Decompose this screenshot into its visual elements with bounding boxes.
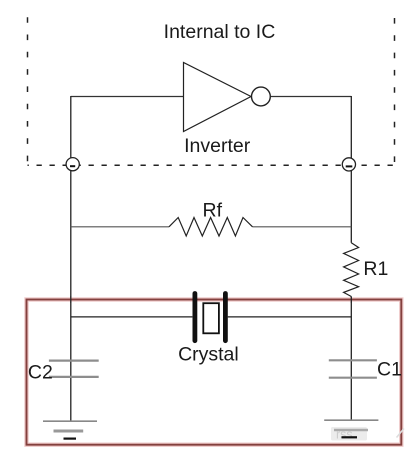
capacitor C1 top plate bbox=[329, 359, 377, 361]
dash inside right node bbox=[346, 165, 353, 167]
wire crystal left bbox=[71, 316, 193, 318]
terminal node right bbox=[342, 158, 355, 171]
svg-text:Internal to IC: Internal to IC bbox=[164, 21, 276, 43]
resistor R1 bbox=[344, 243, 359, 297]
wire Rf right lead bbox=[253, 226, 352, 228]
wire Rf left lead bbox=[71, 226, 169, 228]
resistor Rf bbox=[169, 218, 253, 237]
capacitor C2 bottom plate bbox=[49, 376, 99, 378]
inverter output bubble bbox=[252, 87, 271, 106]
ground right line 3 bbox=[342, 436, 358, 438]
ground right line 2 bbox=[334, 429, 368, 432]
ground left line 2 bbox=[54, 430, 84, 433]
red external network box bbox=[27, 300, 402, 445]
dashed IC boundary bottom edge bbox=[28, 164, 395, 166]
watermark box bbox=[331, 427, 367, 441]
crystal right plate bbox=[223, 294, 228, 341]
svg-text:Inverter: Inverter bbox=[184, 135, 251, 157]
capacitor C1 bottom plate bbox=[329, 377, 377, 379]
ground left line 1 bbox=[43, 420, 97, 422]
wire crystal right bbox=[228, 316, 352, 318]
ground left line 3 bbox=[64, 438, 77, 440]
wire inverter input bbox=[71, 96, 184, 98]
capacitor C2 top plate bbox=[49, 360, 99, 362]
svg-text:C1: C1 bbox=[377, 359, 402, 381]
watermark diagonal bbox=[397, 429, 405, 438]
wire left rail bbox=[70, 96, 72, 421]
terminal node left bbox=[66, 158, 79, 171]
wire right rail lower bbox=[350, 297, 352, 421]
svg-text:R1: R1 bbox=[363, 258, 388, 280]
wire inverter output bbox=[271, 96, 352, 98]
wire right rail upper bbox=[350, 96, 352, 243]
wire left rail crossing red box bbox=[70, 297, 72, 303]
svg-text:Rf: Rf bbox=[203, 200, 223, 222]
dashed IC boundary right edge bbox=[394, 18, 396, 165]
dash inside left node bbox=[70, 165, 75, 167]
dashed IC boundary left edge bbox=[27, 17, 29, 165]
crystal left plate bbox=[192, 294, 197, 341]
crystal body rectangle bbox=[203, 303, 219, 333]
op-amp inverter triangle U1 bbox=[184, 63, 252, 132]
ground right line 1 bbox=[324, 419, 378, 421]
red external network box halo bbox=[27, 300, 402, 445]
svg-text:Crystal: Crystal bbox=[178, 343, 239, 365]
wire right rail crossing red box bbox=[350, 297, 352, 303]
svg-text:C2: C2 bbox=[28, 362, 53, 384]
